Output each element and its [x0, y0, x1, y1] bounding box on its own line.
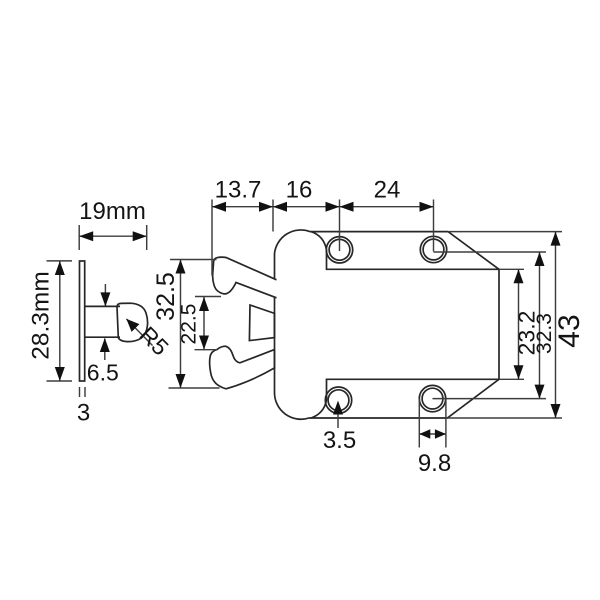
claw bottom arm — [210, 346, 275, 389]
mounting plate (side profile) — [80, 261, 85, 381]
plunger knob (R5 ball end) — [117, 303, 148, 341]
svg-text:28.3mm: 28.3mm — [28, 271, 55, 360]
svg-text:16: 16 — [286, 177, 313, 204]
leader 3.5 (hole dia) — [337, 408, 339, 428]
top flange inner edge — [311, 232, 499, 270]
svg-text:24: 24 — [374, 177, 401, 204]
hole top-left — [326, 237, 352, 263]
svg-text:19mm: 19mm — [79, 198, 146, 225]
dimension 22.5 (jaw gap) — [195, 296, 221, 298]
svg-text:13.7: 13.7 — [215, 177, 262, 204]
svg-text:22.5: 22.5 — [178, 304, 201, 345]
dimension 19mm — [78, 225, 80, 250]
leader R5 — [127, 319, 153, 346]
dimension 3 (plate thickness) — [79, 387, 81, 397]
dimension 9.8 — [418, 399, 420, 448]
plunger stem bottom line — [85, 336, 120, 338]
body outline (base plate silhouette) — [274, 230, 499, 419]
claw top arm — [213, 257, 277, 298]
dimension 32.5 (claw span) — [170, 259, 217, 261]
dimension 23.2 — [499, 268, 524, 270]
dimension 43 (overall) — [449, 231, 562, 233]
top chain dimensions 13.7 / 16 / 24 — [211, 200, 213, 276]
dimension 32.3 (hole centres) — [434, 251, 547, 253]
svg-text:9.8: 9.8 — [418, 450, 451, 477]
svg-text:43: 43 — [553, 314, 586, 347]
svg-text:32.5: 32.5 — [152, 272, 180, 321]
plunger stem top line — [85, 305, 120, 307]
dimension 28.3mm — [47, 260, 73, 262]
svg-text:3.5: 3.5 — [323, 427, 356, 454]
hole bottom-left — [325, 387, 351, 413]
hole bottom-right — [419, 385, 445, 411]
svg-text:6.5: 6.5 — [87, 360, 119, 386]
svg-text:3: 3 — [77, 400, 90, 427]
hole top-right — [420, 236, 446, 262]
bottom flange inner edge — [311, 379, 499, 418]
center wedge — [249, 305, 274, 341]
dimension 6.5 (stem) — [104, 284, 106, 306]
